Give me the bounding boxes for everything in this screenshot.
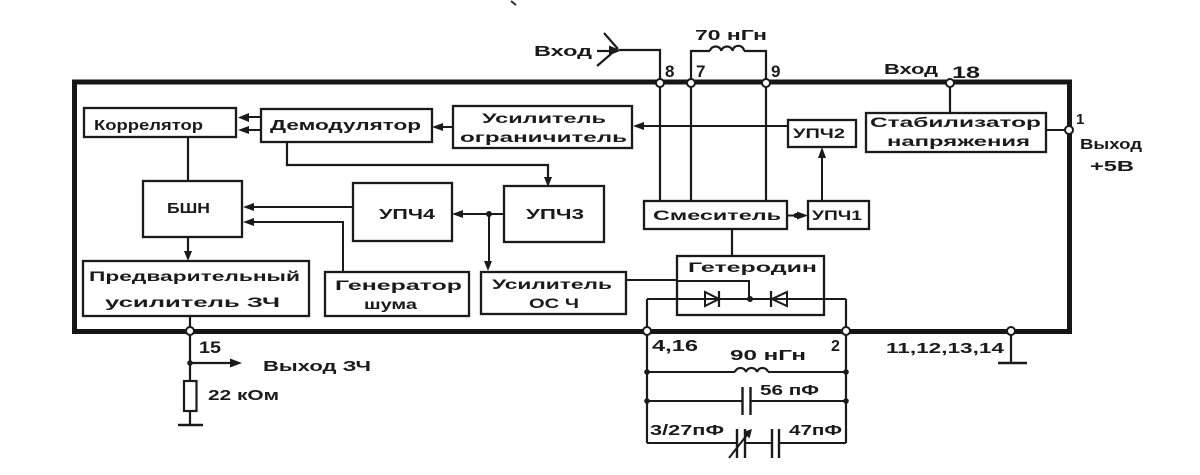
ground (below resistor)	[178, 424, 203, 427]
svg-text:Гетеродин: Гетеродин	[688, 259, 817, 275]
block Усилитель ограничитель	[453, 106, 632, 148]
svg-text:Усилитель: Усилитель	[482, 110, 607, 126]
ground (pins 11-14)	[998, 362, 1027, 365]
pin 2 circle	[842, 327, 850, 335]
svg-text:8: 8	[665, 62, 674, 81]
node junctions capacitor row	[644, 398, 849, 404]
resistor R1 22k	[184, 381, 197, 411]
wire pin 4,16 down	[646, 335, 648, 443]
pin label 1	[1076, 111, 1084, 128]
label 56 пФ	[760, 382, 819, 399]
block Коррелятор	[84, 108, 236, 137]
inductor L2 90nH row	[647, 368, 846, 372]
pin 7 circle	[687, 79, 695, 87]
svg-text:УПЧ1: УПЧ1	[812, 207, 862, 223]
IC outer box U1	[75, 82, 1070, 332]
svg-text:ограничитель: ограничитель	[460, 129, 628, 145]
wire pin 15 down to resistor	[189, 335, 191, 381]
diode VD2	[771, 291, 787, 307]
label 22 кОм	[208, 387, 279, 404]
pin label 11,12,13,14	[886, 340, 1005, 357]
wire diode row left to pin 4,16	[646, 299, 648, 328]
svg-text:Коррелятор: Коррелятор	[94, 117, 203, 134]
capacitor C1 56pF row	[647, 387, 846, 415]
svg-text:шума: шума	[364, 296, 417, 312]
svg-text:90 нГн: 90 нГн	[730, 347, 806, 364]
svg-text:4,16: 4,16	[652, 338, 698, 355]
label Вход (right)	[884, 61, 939, 78]
wire Коррелятор to БШН	[187, 137, 189, 181]
variable capacitor C2 3/27pF	[729, 429, 752, 458]
pin 11,12,13,14 circle	[1007, 327, 1015, 335]
pin label 2	[831, 338, 840, 355]
wire БШН to Предварительный усилитель	[184, 237, 192, 261]
wire input antenna to pin 8	[619, 50, 660, 79]
svg-text:7: 7	[696, 62, 705, 81]
wire diode row	[647, 298, 846, 300]
svg-text:Вход: Вход	[534, 43, 593, 60]
svg-text:УПЧ2: УПЧ2	[793, 125, 845, 141]
svg-text:56 пФ: 56 пФ	[760, 382, 819, 399]
svg-text:Демодулятор: Демодулятор	[270, 117, 421, 134]
block УПЧ1	[808, 201, 869, 229]
pin label 18	[952, 63, 980, 82]
wire УПЧ1 to УПЧ2	[818, 147, 826, 201]
stray scan tick (top centre)	[511, 1, 516, 5]
wire Усилитель-ограничитель to Демодулятор	[432, 123, 453, 131]
label 3/27пФ	[650, 422, 724, 439]
label 90 нГн	[730, 347, 806, 364]
svg-text:Смеситель: Смеситель	[653, 207, 782, 223]
pin 8 circle	[656, 79, 664, 87]
svg-text:Генератор: Генератор	[335, 277, 462, 293]
svg-text:Стабилизатор: Стабилизатор	[870, 114, 1041, 130]
wire УПЧ3 to УПЧ4	[452, 210, 504, 218]
label Выход +5В	[1080, 136, 1143, 175]
pin label 4,16	[652, 338, 698, 355]
block УПЧ3	[504, 186, 604, 242]
block Смеситель	[644, 201, 787, 229]
svg-text:усилитель ЗЧ: усилитель ЗЧ	[105, 294, 280, 310]
wire Демодулятор to Коррелятор arrow upper	[238, 113, 260, 122]
wire pin 18 to Стабилизатор	[949, 87, 951, 113]
label 70 нГн	[695, 27, 767, 44]
wire Демодулятор to Коррелятор arrow lower	[238, 126, 260, 134]
wire junction to Усилитель ОС Ч	[484, 214, 492, 271]
inductor L1 70nH between pins 7 and 9	[691, 46, 766, 79]
svg-text:+5В: +5В	[1090, 158, 1134, 175]
svg-text:ОС Ч: ОС Ч	[529, 295, 579, 311]
wire pin 7 to Смеситель	[690, 84, 692, 201]
block БШН	[143, 181, 242, 237]
wire Смеситель to Гетеродин	[731, 229, 733, 256]
block УПЧ2	[788, 120, 856, 147]
svg-text:УПЧ3: УПЧ3	[526, 206, 584, 223]
pin 4,16 circle	[643, 327, 651, 335]
block Генератор шума	[325, 272, 469, 316]
wire Усилитель ОС Ч to Гетеродин	[626, 279, 677, 281]
label Выход ЗЧ	[263, 358, 371, 375]
wire diode row right to pin 2	[845, 299, 847, 328]
svg-text:Выход: Выход	[1080, 136, 1143, 153]
wire to Выход ЗЧ arrow	[190, 359, 242, 368]
pin label 8	[665, 62, 674, 81]
capacitor C3 47pF	[772, 429, 779, 458]
wire inside Гетеродин to diode junction	[677, 281, 749, 299]
wire УПЧ4 to БШН upper	[243, 203, 353, 211]
block Демодулятор	[261, 109, 432, 142]
wire resistor to ground	[189, 411, 191, 424]
block Усилитель ОС Ч	[481, 272, 626, 314]
svg-text:2: 2	[831, 338, 840, 355]
node junction at Выход ЗЧ tap	[187, 360, 193, 366]
node diode junction	[747, 296, 753, 302]
block Гетеродин	[677, 256, 824, 315]
svg-text:18: 18	[952, 63, 980, 82]
svg-text:47пФ: 47пФ	[789, 422, 842, 439]
pin label 7	[696, 62, 705, 81]
svg-text:22 кОм: 22 кОм	[208, 387, 279, 404]
svg-text:1: 1	[1076, 111, 1084, 128]
wire pin 2 down	[845, 335, 847, 443]
svg-text:3/27пФ: 3/27пФ	[650, 422, 724, 439]
svg-text:70 нГн: 70 нГн	[695, 27, 767, 44]
wire Генератор шума to БШН lower	[243, 218, 343, 272]
wire pin 9 to Смеситель	[765, 84, 767, 201]
block Предварительный усилитель ЗЧ	[83, 261, 309, 316]
pin label 9	[771, 62, 780, 81]
pin 9 circle	[762, 79, 770, 87]
bottom row wire	[647, 442, 846, 444]
node junctions inductor row	[644, 369, 849, 375]
svg-text:Выход ЗЧ: Выход ЗЧ	[263, 358, 371, 375]
pin 18 circle	[946, 79, 954, 87]
antenna input arrow	[597, 33, 621, 66]
diode VD1	[705, 291, 719, 307]
svg-text:11,12,13,14: 11,12,13,14	[886, 340, 1005, 357]
svg-text:Предварительный: Предварительный	[89, 268, 300, 284]
wire Предварительный усилитель to pin 15	[189, 316, 191, 328]
wire УПЧ2 to Усилитель-ограничитель	[633, 122, 788, 130]
svg-text:Вход: Вход	[884, 61, 939, 78]
svg-text:15: 15	[199, 338, 221, 357]
svg-text:УПЧ4: УПЧ4	[379, 206, 436, 223]
wire Демодулятор to УПЧ3	[287, 142, 552, 187]
block УПЧ4	[353, 183, 452, 241]
svg-text:Усилитель: Усилитель	[492, 276, 613, 292]
svg-text:9: 9	[771, 62, 780, 81]
pin 1 circle	[1065, 126, 1073, 134]
pin label 15	[199, 338, 221, 357]
block Стабилизатор напряжения	[866, 113, 1046, 152]
label Вход (left)	[534, 43, 593, 60]
label 47пФ	[789, 422, 842, 439]
wire pin 11-14 to ground	[1010, 335, 1012, 362]
wire Смеситель to УПЧ1	[787, 212, 808, 220]
wire Стабилизатор to pin 1	[1046, 129, 1066, 131]
svg-text:БШН: БШН	[167, 200, 210, 217]
svg-text:напряжения: напряжения	[887, 133, 1030, 149]
wire pin 8 to Смеситель	[659, 84, 661, 201]
pin 15 circle	[186, 327, 194, 335]
node junction on УПЧ3-УПЧ4 wire	[486, 211, 492, 217]
